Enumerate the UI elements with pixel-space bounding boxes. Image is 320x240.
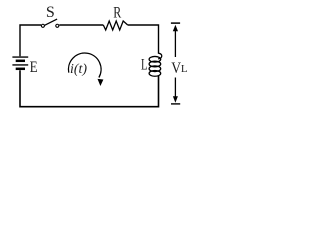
svg-text:S: S	[46, 4, 55, 21]
battery E	[12, 57, 28, 69]
svg-text:R: R	[113, 5, 121, 22]
voltage arrow up	[173, 25, 178, 57]
switch S	[41, 19, 58, 27]
svg-text:i(t): i(t)	[70, 62, 87, 77]
wire switch to resistor	[59, 24, 103, 26]
svg-text:V: V	[171, 60, 181, 77]
svg-text:E: E	[30, 59, 38, 76]
svg-text:L: L	[181, 63, 188, 75]
svg-text:L: L	[141, 57, 148, 74]
wire right vertical below inductor + bottom + left up to battery	[20, 70, 159, 107]
voltage marker VL bottom bar	[171, 103, 180, 105]
wire left vertical + top-left horizontal	[20, 25, 41, 56]
voltage arrow down	[173, 78, 178, 103]
wire resistor to top-right corner and down	[128, 25, 159, 54]
voltage marker VL top bar	[171, 22, 180, 24]
inductor L	[149, 53, 162, 76]
resistor R	[103, 21, 127, 30]
current loop arrow i(t)	[68, 53, 103, 86]
